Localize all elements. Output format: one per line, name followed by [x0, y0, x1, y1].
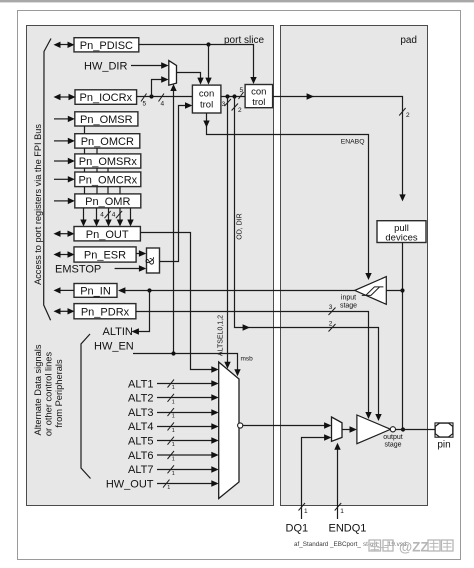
svg-text:ALT2: ALT2 [128, 393, 153, 405]
svg-text:5: 5 [240, 87, 244, 94]
svg-text:Pn_PDRx: Pn_PDRx [81, 306, 130, 318]
net ALTSEL vertical [224, 97, 230, 369]
net pad line vertical [400, 243, 405, 432]
svg-text:ALTIN: ALTIN [103, 326, 133, 338]
output stage U4 [357, 415, 396, 444]
net HW_EN [133, 351, 253, 376]
svg-text:4: 4 [112, 212, 116, 219]
slash 2 on pull wire [399, 108, 410, 119]
register Pn_PDRx [74, 304, 136, 319]
svg-text:3: 3 [222, 101, 226, 108]
slash 2 OD DIR [232, 104, 242, 115]
net Pn_PDRx 3-bit [136, 312, 372, 420]
svg-text:from Peripherals: from Peripherals [54, 359, 64, 428]
svg-text:1: 1 [172, 428, 175, 434]
wire ALT5 [157, 437, 219, 449]
svg-text:1: 1 [172, 399, 175, 405]
bus arrow Pn_OMSR [54, 116, 75, 122]
svg-text:ENDQ1: ENDQ1 [329, 523, 367, 535]
bus arrow Pn_OMR [54, 198, 75, 204]
ticks OMSRx-OMCRx [85, 168, 109, 172]
wires OMR to Pn_OUT [80, 208, 133, 227]
net AND output to U1 [160, 102, 193, 261]
wire ALT3 [157, 408, 219, 420]
mux M1 HW_DIR [169, 61, 177, 86]
wire ALT2 [157, 394, 219, 406]
wire ALT1 [157, 380, 219, 392]
register Pn_OMSR [75, 112, 138, 126]
svg-text:trol: trol [200, 100, 213, 111]
svg-text:1: 1 [172, 385, 175, 391]
svg-text:2: 2 [329, 321, 333, 328]
svg-text:EMSTOP: EMSTOP [55, 264, 101, 276]
bus arrow Pn_PDRx [54, 308, 75, 314]
wire ALT4 [157, 422, 219, 434]
svg-text:stage: stage [340, 303, 357, 310]
net M2 output to M3 [243, 425, 326, 427]
svg-text:Pn_OMCRx: Pn_OMCRx [78, 174, 137, 186]
slash 3 on PDRx wire [329, 304, 336, 315]
svg-text:1: 1 [340, 508, 344, 515]
wire EMSTOP to AND [115, 265, 147, 272]
svg-text:msb: msb [241, 356, 254, 363]
ticks OMCR-OMSRx [85, 148, 98, 154]
svg-text:&: & [143, 257, 157, 265]
svg-text:HW_DIR: HW_DIR [84, 61, 127, 73]
slash 4 on OMR wire [100, 211, 110, 219]
svg-text:or other control lines: or other control lines [43, 352, 53, 437]
svg-text:Access to port registers via t: Access to port registers via the FPI Bus [33, 124, 43, 285]
AND gate [143, 248, 160, 273]
net ALTIN [103, 291, 150, 339]
svg-text:1: 1 [172, 442, 175, 448]
svg-text:stage: stage [384, 442, 401, 449]
svg-text:5: 5 [143, 101, 147, 108]
svg-text:con: con [251, 86, 266, 97]
bus arrow Pn_ESR [54, 251, 75, 257]
svg-text:ALT1: ALT1 [128, 378, 153, 390]
slash 2 on OD DIR horizontal [329, 321, 336, 332]
svg-text:Pn_IN: Pn_IN [80, 285, 111, 297]
slash 4 on OMR wire 2 [112, 211, 122, 219]
svg-text:4: 4 [161, 101, 165, 108]
net input stage to Pn_IN [118, 287, 355, 294]
net OD DIR [235, 97, 382, 422]
svg-text:devices: devices [385, 233, 417, 244]
wire HW_OUT [157, 480, 219, 492]
register Pn_OMCR [75, 134, 140, 148]
slash 4 on IOCR wire [159, 94, 165, 108]
svg-text:1: 1 [167, 485, 170, 491]
svg-text:pad: pad [400, 35, 417, 46]
svg-text:ALT3: ALT3 [128, 407, 153, 419]
svg-text:output: output [383, 434, 403, 441]
net M3 output to output stage [342, 426, 357, 433]
svg-text:1: 1 [304, 508, 308, 515]
ticks OMCRx-OMR [85, 187, 121, 194]
svg-text:ALT5: ALT5 [128, 436, 153, 448]
svg-text:ENABQ: ENABQ [341, 139, 365, 146]
svg-text:Pn_OMSRx: Pn_OMSRx [79, 156, 138, 168]
svg-text:Pn_OMR: Pn_OMR [85, 196, 130, 208]
register Pn_ESR [74, 247, 136, 262]
svg-text:input: input [341, 295, 356, 302]
port slice region [27, 26, 274, 506]
svg-text:2: 2 [406, 112, 410, 119]
slash 5 on IOCR wire [141, 94, 147, 108]
svg-text:Pn_ESR: Pn_ESR [84, 250, 126, 262]
svg-text:DQ1: DQ1 [286, 523, 309, 535]
mux M3 [332, 417, 343, 441]
pull devices box [377, 221, 426, 244]
net U2 output to pull devices [273, 93, 406, 201]
svg-text:ALT4: ALT4 [128, 421, 153, 433]
svg-text:2: 2 [238, 107, 242, 114]
watermark [369, 540, 453, 555]
pin symbol [435, 423, 453, 451]
svg-text:OD, DIR: OD, DIR [236, 213, 243, 239]
svg-text:ALT7: ALT7 [128, 464, 153, 476]
wire ALT6 [157, 451, 219, 463]
peripherals brace [81, 334, 91, 479]
svg-text:trol: trol [252, 97, 265, 108]
svg-text:Pn_OMCR: Pn_OMCR [81, 136, 134, 148]
input stage U3 [355, 277, 403, 305]
control box U1 [192, 85, 221, 113]
label input stage [340, 295, 357, 310]
register Pn_PDISC [74, 38, 139, 52]
pad region [281, 26, 428, 506]
net ENABQ [203, 113, 371, 280]
svg-text:HW_EN: HW_EN [94, 341, 134, 353]
net Pn_PDISC output [139, 42, 257, 84]
net ENDQ1 [334, 443, 344, 519]
mux M2 big [219, 362, 243, 499]
svg-text:Pn_IOCRx: Pn_IOCRx [80, 92, 133, 104]
bus arrow Pn_PDISC [54, 42, 75, 48]
FPI bus brace [44, 39, 51, 321]
svg-text:pin: pin [437, 440, 450, 451]
svg-text:1: 1 [172, 471, 175, 477]
svg-text:1: 1 [172, 457, 175, 463]
register Pn_OUT [74, 227, 140, 241]
net Pn_ESR to AND [136, 250, 146, 257]
net Pn_OUT to mux [140, 233, 218, 373]
svg-text:4: 4 [100, 212, 104, 219]
svg-text:HW_OUT: HW_OUT [106, 478, 154, 490]
bus arrow Pn_OUT [54, 231, 75, 237]
wire M1 select from HW_EN [170, 84, 176, 354]
slash 3 ALTSEL [222, 99, 231, 108]
net U1 to U2 5-bit [221, 94, 245, 98]
register Pn_IOCRx [75, 90, 137, 105]
net DQ1 [299, 434, 332, 519]
svg-text:@ZZ: @ZZ [399, 540, 429, 555]
svg-text:Alternate Data signals: Alternate Data signals [33, 344, 43, 435]
net Pn_IOCRx output [137, 76, 193, 98]
bus arrow Pn_IOCRx [54, 94, 76, 100]
svg-text:af_Standard _EBCport_: af_Standard _EBCport_ [294, 541, 361, 548]
bus arrow Pn_OMCR [54, 138, 75, 144]
register Pn_IN [74, 284, 117, 298]
register Pn_OMCRx [75, 172, 141, 187]
svg-text:1: 1 [172, 414, 175, 420]
register Pn_OMSRx [75, 154, 141, 168]
svg-text:Pn_OUT: Pn_OUT [86, 229, 129, 241]
register Pn_OMR [75, 194, 141, 208]
control box U2 [245, 85, 273, 108]
wire ALT7 [157, 465, 219, 477]
label output stage [383, 434, 403, 449]
svg-text:ALTSEL0,1,2: ALTSEL0,1,2 [217, 315, 224, 356]
bus arrow Pn_OMCRx [54, 176, 75, 182]
svg-text:3: 3 [329, 304, 333, 311]
wire HW_DIR to mux [131, 62, 169, 69]
svg-text:Pn_PDISC: Pn_PDISC [80, 40, 133, 52]
bus arrow Pn_OMSRx [54, 158, 75, 164]
bus arrow Pn_IN [54, 287, 75, 293]
svg-text:ALT6: ALT6 [128, 450, 153, 462]
ticks OMSR-OMCR [84, 126, 86, 134]
svg-text:con: con [199, 89, 214, 100]
net output stage to pin [396, 429, 436, 431]
svg-text:Pn_OMSR: Pn_OMSR [80, 114, 133, 126]
slash 5 before U2 [239, 87, 244, 99]
wire M1 output to U1 [177, 73, 204, 85]
